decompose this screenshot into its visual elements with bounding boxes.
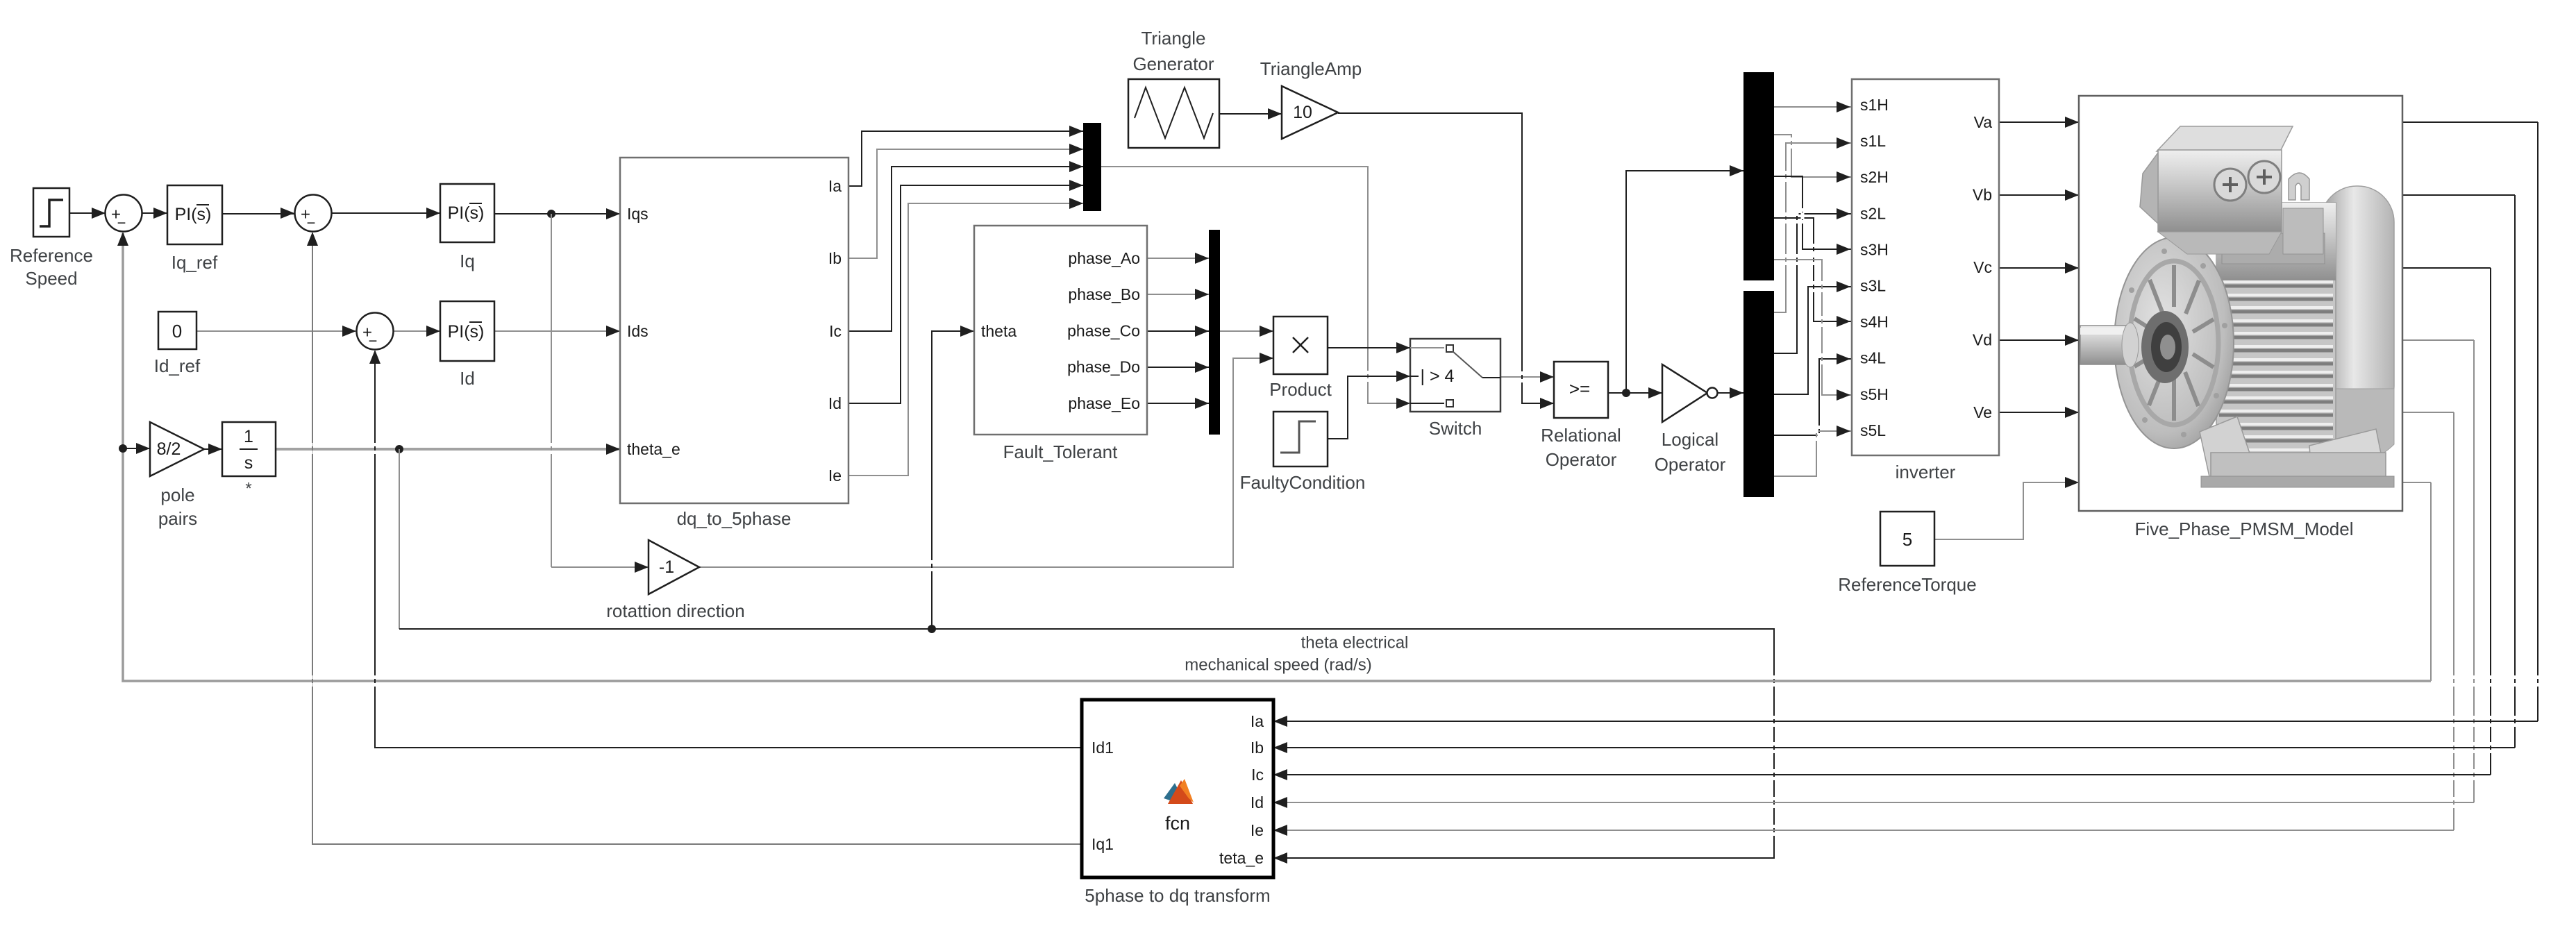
svg-text:phase_Do: phase_Do — [1067, 358, 1140, 376]
svg-text:Operator: Operator — [1546, 449, 1617, 470]
svg-text:5phase to dq transform: 5phase to dq transform — [1085, 885, 1270, 906]
svg-text:0: 0 — [172, 321, 182, 342]
svg-text:s1H: s1H — [1860, 96, 1889, 114]
svg-text:Speed: Speed — [25, 268, 77, 289]
svg-text:s3H: s3H — [1860, 240, 1889, 258]
svg-text:Generator: Generator — [1132, 53, 1214, 74]
svg-text:Operator: Operator — [1655, 454, 1726, 475]
svg-text:Five_Phase_PMSM_Model: Five_Phase_PMSM_Model — [2134, 519, 2353, 539]
svg-text:Relational: Relational — [1541, 425, 1621, 446]
svg-text:Triangle: Triangle — [1141, 28, 1206, 49]
svg-text:Ie: Ie — [828, 466, 842, 485]
svg-text:Ie: Ie — [1251, 821, 1264, 839]
svg-text:s3L: s3L — [1860, 277, 1886, 295]
svg-text:Ids: Ids — [627, 322, 649, 340]
svg-text:phase_Co: phase_Co — [1067, 321, 1140, 339]
svg-text:Id: Id — [1251, 793, 1264, 811]
svg-text:Ia: Ia — [828, 177, 842, 195]
svg-text:Vc: Vc — [1973, 258, 1992, 276]
svg-text:Fault_Tolerant: Fault_Tolerant — [1003, 441, 1119, 462]
svg-text:Ib: Ib — [828, 249, 842, 267]
svg-text:Vb: Vb — [1973, 186, 1992, 204]
svg-text:PI(s): PI(s) — [448, 203, 485, 223]
svg-text:inverter: inverter — [1896, 462, 1956, 482]
svg-text:Ia: Ia — [1251, 712, 1264, 730]
svg-text:ReferenceTorque: ReferenceTorque — [1838, 574, 1976, 595]
svg-text:Iq: Iq — [460, 251, 475, 271]
svg-text:Iqs: Iqs — [627, 205, 649, 223]
svg-text:theta_e: theta_e — [627, 440, 680, 458]
svg-text:TriangleAmp: TriangleAmp — [1260, 58, 1362, 79]
svg-text:Reference: Reference — [10, 245, 93, 266]
svg-text:s2H: s2H — [1860, 168, 1889, 186]
svg-text:s2L: s2L — [1860, 204, 1886, 222]
svg-text:Iq1: Iq1 — [1092, 835, 1114, 853]
svg-text:>=: >= — [1569, 378, 1590, 399]
svg-text:s5H: s5H — [1860, 385, 1889, 403]
svg-text:Ic: Ic — [829, 322, 842, 340]
svg-text:FaultyCondition: FaultyCondition — [1240, 472, 1366, 493]
svg-text:theta: theta — [981, 322, 1017, 340]
svg-text:−: − — [307, 215, 316, 232]
svg-text:phase_Ao: phase_Ao — [1068, 249, 1140, 267]
svg-text:*: * — [245, 480, 251, 498]
svg-text:pairs: pairs — [158, 508, 197, 529]
svg-text:Id_ref: Id_ref — [154, 355, 201, 376]
svg-text:s1L: s1L — [1860, 132, 1886, 150]
svg-text:dq_to_5phase: dq_to_5phase — [677, 508, 792, 529]
svg-text:phase_Bo: phase_Bo — [1068, 285, 1140, 303]
svg-text:-1: -1 — [659, 557, 674, 577]
svg-text:Product: Product — [1269, 379, 1332, 400]
svg-text:Ic: Ic — [1251, 766, 1264, 784]
svg-text:theta electrical: theta electrical — [1301, 634, 1409, 653]
svg-text:8/2: 8/2 — [157, 439, 181, 459]
svg-text:−: − — [369, 333, 378, 350]
svg-text:5: 5 — [1902, 529, 1912, 550]
svg-text:Logical: Logical — [1662, 429, 1718, 450]
svg-text:fcn: fcn — [1165, 813, 1190, 834]
svg-text:s4L: s4L — [1860, 349, 1886, 367]
svg-text:Id1: Id1 — [1092, 739, 1114, 757]
svg-text:Ib: Ib — [1251, 739, 1264, 757]
svg-text:teta_e: teta_e — [1219, 849, 1264, 867]
svg-text:s: s — [244, 453, 253, 473]
svg-text:| > 4: | > 4 — [1421, 367, 1455, 386]
svg-text:s4H: s4H — [1860, 313, 1889, 331]
svg-text:Va: Va — [1974, 113, 1993, 131]
svg-text:1: 1 — [244, 427, 253, 446]
svg-text:pole: pole — [160, 485, 194, 505]
svg-text:rotattion direction: rotattion direction — [606, 600, 744, 621]
svg-text:Vd: Vd — [1973, 331, 1992, 349]
svg-text:s5L: s5L — [1860, 421, 1886, 439]
svg-text:Switch: Switch — [1429, 418, 1482, 439]
svg-text:phase_Eo: phase_Eo — [1068, 394, 1140, 412]
svg-text:mechanical speed (rad/s): mechanical speed (rad/s) — [1185, 656, 1371, 675]
svg-text:10: 10 — [1293, 103, 1312, 122]
svg-text:Iq_ref: Iq_ref — [172, 252, 218, 273]
svg-text:PI(s): PI(s) — [175, 205, 212, 224]
svg-text:Id: Id — [828, 394, 842, 412]
svg-text:PI(s): PI(s) — [448, 322, 485, 342]
svg-text:Ve: Ve — [1973, 403, 1992, 421]
svg-text:−: − — [117, 215, 126, 232]
svg-text:Id: Id — [460, 368, 475, 389]
